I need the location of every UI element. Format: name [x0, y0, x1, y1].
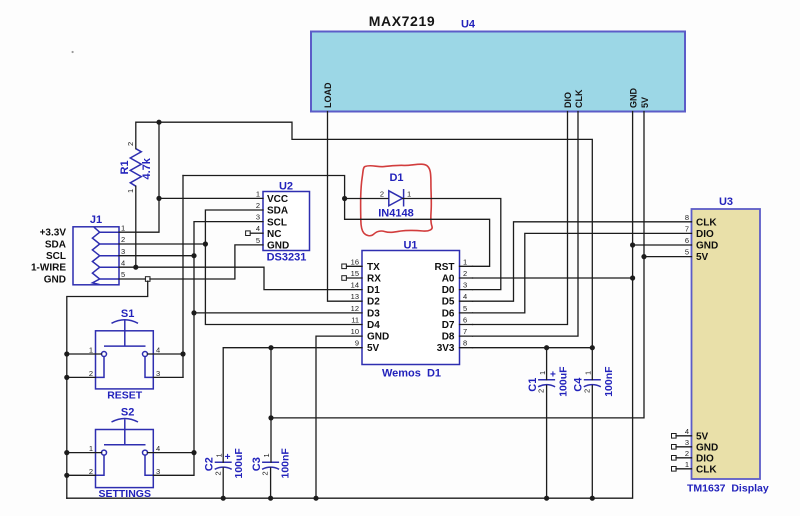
svg-text:GND: GND	[629, 88, 639, 109]
svg-text:LOAD: LOAD	[323, 82, 333, 108]
no-connect square marker on J1 pin5 GND jog	[145, 277, 150, 282]
svg-text:2: 2	[121, 235, 125, 244]
junction dot +3.3V at rail x159	[156, 120, 161, 125]
junction dot +3.3V at U2 VCC branch	[156, 196, 161, 201]
wire 3V3 row U1 pin8 to C1 C4 columns	[473, 348, 593, 380]
svg-text:4: 4	[256, 224, 260, 233]
svg-text:5V: 5V	[696, 431, 709, 442]
svg-text:2: 2	[256, 201, 260, 210]
IC U1 Wemos D1 body	[362, 251, 460, 365]
svg-text:13: 13	[351, 292, 359, 301]
svg-text:6: 6	[463, 316, 467, 325]
svg-text:2: 2	[89, 369, 93, 378]
svg-text:S1: S1	[121, 308, 134, 320]
wire D1 anode stub	[345, 198, 388, 200]
svg-text:2: 2	[126, 142, 135, 146]
junction dot RST net at S1 pin4	[180, 351, 185, 356]
svg-text:DIO: DIO	[696, 453, 714, 464]
connector J1 body	[73, 227, 119, 285]
junction dot GND rail at C1	[544, 496, 549, 501]
svg-text:15: 15	[351, 269, 359, 278]
svg-text:14: 14	[351, 281, 359, 290]
svg-text:GND: GND	[267, 241, 289, 252]
svg-text:4: 4	[156, 346, 160, 355]
U1 RX pin 15 no-connect stub	[342, 276, 362, 281]
svg-text:TX: TX	[367, 262, 380, 273]
svg-text:4: 4	[156, 444, 160, 453]
svg-text:2: 2	[582, 389, 591, 393]
svg-text:5: 5	[685, 248, 689, 257]
svg-text:11: 11	[351, 316, 359, 325]
svg-text:D1: D1	[389, 172, 403, 184]
svg-text:SDA: SDA	[267, 206, 288, 217]
svg-text:3: 3	[156, 467, 160, 476]
svg-text:100uF: 100uF	[558, 366, 570, 397]
wire net LOAD U4 to U1 D2	[328, 112, 363, 302]
junction dot GND at A0 branch	[630, 275, 635, 280]
IC U3 TM1637 display body	[692, 209, 761, 479]
svg-text:10: 10	[351, 327, 359, 336]
svg-text:SCL: SCL	[267, 217, 287, 228]
svg-text:1: 1	[538, 371, 547, 375]
svg-text:RESET: RESET	[107, 390, 143, 402]
svg-text:5: 5	[121, 270, 125, 279]
svg-text:NC: NC	[267, 229, 281, 240]
svg-text:2: 2	[537, 389, 546, 393]
svg-text:A0: A0	[442, 274, 455, 285]
junction dot GND rail at C3	[268, 496, 273, 501]
svg-text:U4: U4	[461, 19, 476, 31]
svg-text:1: 1	[584, 371, 593, 375]
junction dot 5V at U3 pin5	[641, 254, 646, 259]
svg-text:GND: GND	[367, 332, 389, 343]
wire C1 column GND segment	[546, 386, 548, 499]
svg-text:3: 3	[256, 213, 260, 222]
junction dot GND at S1 pin1	[64, 351, 69, 356]
svg-text:1-WIRE: 1-WIRE	[31, 263, 66, 274]
U3 pin numbers top 8 7 6 5	[685, 213, 689, 257]
junction dot SCL at S2 pin4	[191, 450, 196, 455]
wire net TM CLK U3 pin8 to U1 D5	[473, 222, 692, 301]
svg-text:2: 2	[89, 467, 93, 476]
svg-text:R1: R1	[119, 160, 131, 174]
svg-text:6: 6	[685, 236, 689, 245]
U2 pin names VCC SDA SCL NC GND	[267, 194, 289, 252]
junction dot GND rail at U1 GND column	[313, 496, 318, 501]
svg-text:+: +	[225, 452, 231, 463]
wire net 5V from U4 down to 5V row and capacitors	[223, 112, 644, 463]
wire C4 column GND segment	[591, 386, 593, 499]
red annotation circle around D1	[361, 164, 433, 236]
svg-text:GND: GND	[44, 275, 66, 286]
svg-text:D1: D1	[367, 285, 380, 296]
svg-text:D8: D8	[442, 332, 455, 343]
svg-text:100nF: 100nF	[279, 448, 291, 479]
wire C2 column GND segment	[222, 468, 224, 498]
svg-text:SDA: SDA	[45, 240, 66, 251]
svg-text:D3: D3	[367, 308, 380, 319]
IC U2 DS3231 body	[263, 192, 310, 251]
svg-text:DIO: DIO	[563, 92, 573, 108]
wire R1 bottom to 1-WIRE net	[135, 186, 137, 267]
svg-text:1: 1	[89, 346, 93, 355]
stray ink speck	[72, 51, 74, 53]
svg-text:3V3: 3V3	[437, 343, 455, 354]
junction dot 5V at C3 column	[268, 415, 273, 420]
wire net RST S1 to D1 anode to U1 RST	[148, 176, 490, 378]
svg-text:100nF: 100nF	[603, 366, 615, 397]
svg-text:5: 5	[463, 304, 467, 313]
resistor R1 4.7k body zigzag	[130, 149, 141, 187]
svg-text:SCL: SCL	[46, 251, 66, 262]
switch S2 SETTINGS body	[96, 418, 154, 487]
svg-text:2: 2	[685, 449, 689, 458]
junction dot 3V3 at C1 column	[544, 345, 549, 350]
svg-text:12: 12	[351, 304, 359, 313]
wire C3 column GND segment	[270, 468, 272, 498]
junction dot GND at U3 pin6	[630, 242, 635, 247]
junction dot SDA at J1 branch	[203, 241, 208, 246]
junction dot 5V at U1 pin9 wire and C2 branch	[268, 345, 273, 350]
svg-text:+3.3V: +3.3V	[40, 228, 67, 239]
junction dot GND rail at C4	[590, 496, 595, 501]
U1 left pin names TX RX D1 D2 D3 D4 GND 5V	[367, 262, 389, 354]
svg-text:4: 4	[685, 427, 689, 436]
capacitor C2 100uF polarized symbol	[215, 462, 232, 469]
svg-text:1: 1	[407, 190, 411, 199]
wire GND branch U1 GND pin10 down to rail	[316, 336, 362, 498]
S1 pin numbers 1 2 4 3	[89, 346, 160, 378]
svg-text:J1: J1	[90, 214, 102, 226]
J1 pin numbers 1 2 3 4 5	[121, 223, 125, 279]
wire net +3.3V top rail from R1 top to C4 column	[136, 122, 593, 380]
svg-text:2: 2	[380, 190, 384, 199]
svg-text:3: 3	[121, 247, 125, 256]
U1 right pin numbers 1 2 3 4 5 6 7 8	[463, 257, 467, 347]
svg-text:1: 1	[121, 223, 125, 232]
svg-text:D4: D4	[367, 320, 380, 331]
svg-text:4: 4	[463, 292, 467, 301]
wire D1 cathode to U1 D0	[403, 199, 501, 290]
diode D1 IN4148 symbol	[389, 189, 404, 207]
wire net SDA J1 pin2 to U2 SDA and U1 D4	[119, 210, 362, 325]
capacitor C1 100uF polarized symbol	[538, 380, 555, 387]
svg-text:CLK: CLK	[696, 464, 717, 475]
S2 pin numbers 1 2 4 3	[89, 444, 160, 476]
svg-text:RST: RST	[435, 262, 455, 273]
svg-text:1: 1	[215, 453, 224, 457]
junction dot 3V3 at C4 column	[590, 345, 595, 350]
wire net CLK U4 to U1 D8	[473, 112, 579, 337]
svg-text:U2: U2	[279, 181, 293, 193]
junction dot RST net at D1 anode	[342, 196, 347, 201]
svg-text:1: 1	[89, 444, 93, 453]
svg-text:D5: D5	[442, 297, 455, 308]
svg-text:1: 1	[685, 460, 689, 469]
wire 5V branch U3 pin5	[644, 256, 692, 258]
svg-text:MAX7219: MAX7219	[369, 13, 435, 29]
junction dot SCL at U1 D3 branch	[191, 310, 196, 315]
wire net TM DIO U3 pin7 to U1 D6	[473, 233, 692, 313]
svg-text:C2: C2	[204, 457, 216, 471]
svg-text:2: 2	[463, 269, 467, 278]
svg-text:GND: GND	[696, 241, 718, 252]
svg-text:CLK: CLK	[574, 89, 584, 108]
svg-text:7: 7	[463, 327, 467, 336]
svg-text:16: 16	[351, 257, 359, 266]
svg-text:8: 8	[463, 339, 467, 348]
svg-text:3: 3	[463, 281, 467, 290]
svg-text:S2: S2	[121, 407, 134, 419]
svg-text:4.7k: 4.7k	[141, 157, 153, 179]
svg-text:1: 1	[256, 189, 260, 198]
svg-text:5V: 5V	[367, 343, 380, 354]
svg-text:2: 2	[261, 471, 270, 475]
svg-text:100uF: 100uF	[233, 448, 245, 479]
svg-text:1: 1	[262, 453, 271, 457]
svg-text:D6: D6	[442, 308, 455, 319]
capacitor C3 100nF symbol	[262, 462, 279, 469]
svg-text:7: 7	[685, 224, 689, 233]
C3 pin numbers 1 2	[261, 453, 271, 475]
junction dot 1-WIRE at R1 bottom	[133, 265, 138, 270]
svg-text:D2: D2	[367, 297, 380, 308]
svg-text:IN4148: IN4148	[378, 208, 413, 220]
wire GND branch U1 A0 pin2	[473, 277, 633, 279]
svg-text:VCC: VCC	[267, 194, 288, 205]
svg-text:4: 4	[121, 258, 125, 267]
svg-text:8: 8	[685, 213, 689, 222]
svg-text:9: 9	[355, 339, 359, 348]
switch S1 RESET body	[96, 320, 154, 389]
wire net 1-WIRE J1 pin4 to U1 pin D1	[119, 267, 362, 289]
svg-text:U1: U1	[403, 240, 417, 252]
svg-text:5V: 5V	[640, 97, 650, 108]
svg-text:2: 2	[213, 471, 222, 475]
U3 pin numbers bottom 4 3 2 1	[685, 427, 689, 469]
svg-text:GND: GND	[696, 442, 718, 453]
svg-text:C3: C3	[251, 457, 263, 471]
svg-text:1: 1	[463, 257, 467, 266]
C4 pin numbers 1 2	[582, 371, 592, 393]
IC U4 MAX7219 display module body	[311, 32, 685, 112]
U1 right pin stubs	[460, 266, 473, 347]
C1 pin numbers 1 2	[537, 371, 547, 393]
U2 pin numbers 1 2 3 4 5	[256, 189, 260, 245]
svg-text:Wemos D1: Wemos D1	[382, 367, 441, 379]
svg-text:D0: D0	[442, 285, 455, 296]
svg-text:D7: D7	[442, 320, 455, 331]
wire +3.3V branch J1 pin1 up to rail and U2 VCC	[119, 122, 263, 232]
svg-text:5V: 5V	[696, 252, 709, 263]
U1 TX pin 16 no-connect stub	[342, 264, 362, 269]
junction dot GND at S2 pin1	[64, 450, 69, 455]
wire GND branch U3 pin6	[633, 244, 692, 246]
svg-text:3: 3	[156, 369, 160, 378]
U1 left pin numbers 16 15 14 13 12 11 10 9	[351, 257, 359, 347]
svg-text:DIO: DIO	[696, 229, 714, 240]
svg-text:TM1637 Display: TM1637 Display	[687, 482, 769, 494]
C2 pin numbers 1 2	[213, 453, 223, 475]
capacitor C4 100nF symbol	[584, 380, 601, 387]
wire net DIO U4 to U1 D7	[473, 112, 568, 325]
svg-text:CLK: CLK	[696, 217, 717, 228]
svg-text:DS3231: DS3231	[267, 252, 307, 264]
junction dot GND at S1 pin2	[64, 375, 69, 380]
svg-text:RX: RX	[367, 274, 381, 285]
wire net SCL J1 pin3 to U2 SCL U1 D3 and S2	[119, 222, 362, 476]
junction dot GND rail at C2	[221, 496, 226, 501]
wire net GND left rail J1 pin5 to switches to bottom rail	[67, 112, 633, 499]
svg-text:U3: U3	[719, 196, 733, 208]
junction dot SCL at J1 branch	[191, 253, 196, 258]
U1 right pin names RST A0 D0 D5 D6 D7 D8 3V3	[435, 262, 455, 354]
junction dot GND at S2 pin2	[64, 473, 69, 478]
svg-text:1: 1	[126, 189, 135, 193]
svg-text:+: +	[550, 370, 556, 381]
U2 NC pin 4 no-connect stub	[246, 231, 263, 236]
svg-text:3: 3	[685, 438, 689, 447]
svg-text:5: 5	[256, 236, 260, 245]
U3 unconnected bottom pin stubs with no-connect squares pins 4 3 2 1	[672, 434, 692, 472]
